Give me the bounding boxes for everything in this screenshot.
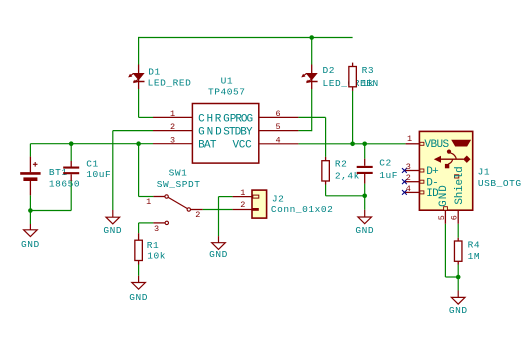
svg-text:Conn_01x02: Conn_01x02 (271, 204, 334, 215)
svg-text:GND: GND (355, 225, 374, 236)
wire R1 bottom to GND (138, 265, 140, 276)
wire BAT row horizontal battery to pin3 (30, 143, 153, 145)
U1 pin 2 GND (153, 122, 192, 132)
J1 pin 6 Shield bottom (449, 175, 459, 224)
svg-text:1k: 1k (362, 78, 375, 89)
capacitor C1 (63, 161, 79, 181)
wire VCC row pin4 to J1 VBUS (298, 143, 405, 145)
svg-text:J1: J1 (478, 166, 491, 177)
svg-text:2: 2 (240, 200, 245, 210)
svg-text:1: 1 (146, 197, 151, 207)
capacitor C2 (357, 159, 373, 184)
svg-text:TP4057: TP4057 (208, 87, 246, 98)
junction R2/C2 GND net (362, 194, 367, 199)
svg-text:D2: D2 (323, 65, 336, 76)
wire U1 pin6 PROG horizontal to R2 branch (298, 116, 325, 118)
junction VCC row / C2 (362, 142, 367, 147)
svg-text:GND: GND (103, 225, 122, 236)
wire top net D1/D2/R3 horizontal (139, 37, 353, 39)
svg-text:3: 3 (170, 135, 175, 145)
ground below R4 (449, 291, 468, 316)
wire D1 cathode down to pin1 corner (138, 89, 140, 117)
wire switch pin3 down to R1 (138, 223, 140, 233)
wire battery negative bottom horizontal (30, 210, 71, 212)
svg-text:VBUS: VBUS (424, 139, 449, 151)
svg-text:SW1: SW1 (169, 168, 188, 179)
wire C2 net down to GND (364, 196, 366, 210)
wire R2 bottom vertical (325, 185, 327, 196)
battery BT1 (20, 157, 40, 196)
svg-text:2: 2 (406, 173, 411, 183)
J2 pin 2 (233, 200, 259, 211)
wire J2 pin1 GND vertical (218, 197, 220, 237)
svg-text:10k: 10k (147, 250, 166, 261)
svg-text:GND: GND (21, 239, 40, 250)
wire battery negative vertical (29, 195, 31, 224)
wire R2 bottom horizontal to C2 net (326, 195, 365, 197)
U1 pin 6 PROG (259, 109, 299, 119)
J2 pin 1 (233, 188, 259, 198)
J1 pin 2 D- with no-connect (402, 173, 424, 184)
svg-text:J2: J2 (272, 194, 285, 205)
wire pin2 GND branch vertical (112, 131, 114, 210)
wire U1 pin5 STDBY horizontal (298, 130, 311, 132)
junction BAT row / switch branch (136, 141, 141, 146)
svg-text:R4: R4 (468, 240, 481, 251)
svg-text:2: 2 (170, 122, 175, 132)
wire R2 branch vertical (325, 117, 327, 156)
svg-text:BAT: BAT (198, 140, 217, 152)
svg-text:USB_OTG: USB_OTG (478, 178, 522, 189)
svg-text:2,4k: 2,4k (335, 171, 360, 182)
ground below battery (21, 224, 40, 250)
svg-text:10uF: 10uF (86, 169, 111, 180)
U1 pin 4 VCC (259, 135, 299, 145)
ground below C2/R2 (355, 210, 374, 236)
wire J1 pin6 shield to R4 top (457, 224, 459, 238)
junction top wire / D2 branch (309, 35, 314, 40)
connector J2 body (252, 190, 267, 218)
svg-text:3: 3 (406, 162, 411, 172)
wire R4 net down to GND (457, 277, 459, 291)
wire pin2 row horizontal (113, 130, 153, 132)
wire C2 top vertical (364, 144, 366, 159)
ground below J2 pin1 (209, 236, 228, 260)
svg-text:1: 1 (240, 188, 245, 198)
J1 USB trident icon (434, 150, 471, 169)
svg-text:PROG: PROG (230, 113, 253, 125)
svg-text:6: 6 (449, 215, 459, 220)
J1 pin 5 GND bottom (437, 207, 448, 224)
svg-text:R3: R3 (362, 65, 375, 76)
J1 pin 4 ID with no-connect (402, 184, 424, 195)
wire battery positive vertical (29, 144, 31, 157)
J1 pin 3 D+ with no-connect (402, 162, 424, 173)
wire J2 pin1 horizontal (219, 196, 233, 198)
wire C2 bottom vertical (364, 184, 366, 196)
svg-text:1M: 1M (468, 251, 481, 262)
resistor R1 (135, 233, 143, 264)
ground below U1 pin2 (103, 210, 122, 236)
svg-text:GND: GND (209, 249, 228, 260)
svg-text:SW_SPDT: SW_SPDT (157, 179, 201, 190)
svg-text:GND: GND (129, 292, 148, 303)
svg-text:C2: C2 (379, 158, 392, 169)
svg-text:6: 6 (275, 109, 280, 119)
transistor SW1 SPDT switch (153, 195, 202, 225)
wire C1 top vertical (70, 144, 72, 161)
svg-text:GND: GND (449, 305, 468, 316)
svg-text:GND: GND (438, 184, 450, 207)
wire C1 bottom vertical (70, 181, 72, 211)
junction battery negative / bottom wire (28, 208, 33, 213)
svg-text:GND: GND (198, 127, 224, 139)
svg-text:2: 2 (195, 210, 200, 220)
svg-text:D+: D+ (426, 166, 438, 178)
svg-text:VCC: VCC (233, 140, 253, 152)
op-amp U1 TP4057 body (192, 104, 258, 164)
svg-text:3: 3 (154, 224, 159, 234)
junction BAT row / C1 (69, 141, 74, 146)
svg-text:1: 1 (170, 109, 175, 119)
svg-text:D1: D1 (148, 66, 161, 77)
resistor R3 (349, 63, 357, 91)
junction R4 / pin5 GND net (456, 275, 461, 280)
wire R4 bottom vertical (457, 265, 459, 278)
junction VCC row / R3 (350, 142, 355, 147)
svg-text:Shield: Shield (454, 166, 466, 204)
wire D2 cathode down to pin5 (311, 89, 313, 131)
svg-text:5: 5 (437, 215, 447, 220)
U1 pin 5 STDBY (259, 122, 299, 132)
svg-text:1: 1 (407, 134, 412, 144)
svg-text:STDBY: STDBY (223, 127, 253, 139)
connector J1 USB_OTG body (419, 131, 472, 210)
svg-text:4: 4 (406, 184, 411, 194)
svg-text:C1: C1 (86, 158, 99, 169)
svg-text:1uF: 1uF (379, 170, 398, 181)
svg-text:LED_RED: LED_RED (148, 77, 192, 88)
wire switch pin3 horizontal (139, 222, 154, 224)
resistor R2 (322, 157, 330, 185)
J1 pin 1 VBUS (406, 134, 424, 145)
wire J1 pin5 GND horizontal to R4 net (445, 276, 458, 278)
wire top-left vertical down to D1 anode (138, 37, 140, 65)
svg-text:5: 5 (275, 122, 280, 132)
svg-text:18650: 18650 (49, 179, 80, 190)
wire R3 bottom vertical to VCC row (352, 91, 354, 144)
LED D1 (129, 65, 145, 90)
ground below R1 (129, 276, 148, 303)
LED D2 (302, 65, 318, 90)
U1 pin 3 BAT (153, 135, 192, 145)
wire pin1 row horizontal (139, 116, 153, 118)
wire J1 pin5 GND vertical (444, 224, 446, 277)
wire switch branch vertical from BAT junction (138, 144, 140, 197)
wire switch common to J2 pin2 (203, 209, 233, 211)
wire switch pin1 horizontal (139, 196, 154, 198)
svg-text:CHRG: CHRG (198, 113, 231, 125)
svg-text:R2: R2 (335, 158, 348, 169)
resistor R4 (454, 238, 462, 265)
J1 USB trapezoid icon (452, 140, 471, 146)
svg-text:4: 4 (275, 135, 280, 145)
wire D2 branch vertical from junction (311, 37, 313, 65)
U1 pin 1 CHRG (153, 109, 192, 119)
svg-text:U1: U1 (221, 76, 234, 87)
